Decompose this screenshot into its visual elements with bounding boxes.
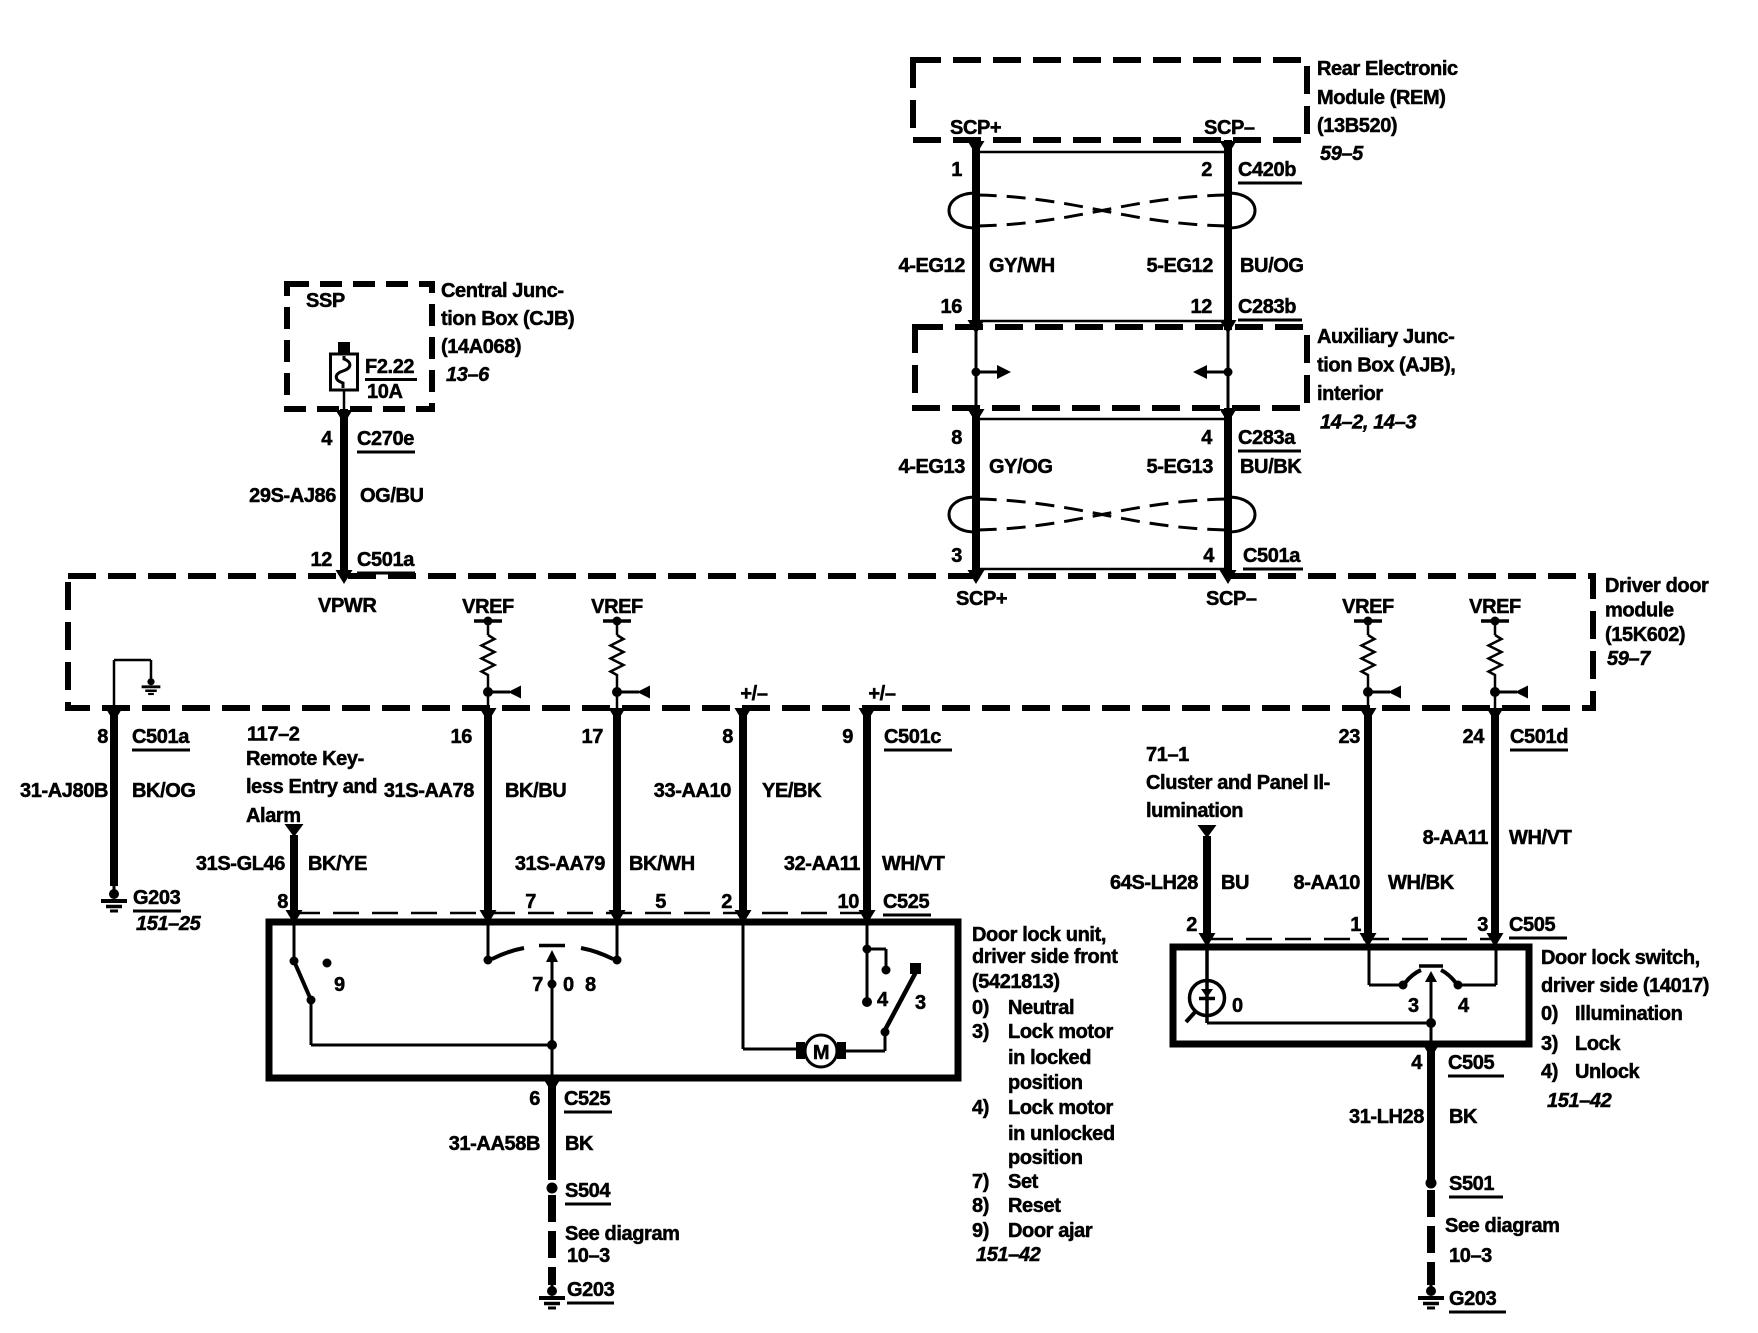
svg-text:(15K602): (15K602) (1605, 624, 1685, 646)
connector C525 (883, 891, 931, 915)
svg-text:Neutral: Neutral (1008, 997, 1074, 1019)
svg-text:7: 7 (525, 891, 536, 913)
svg-text:YE/BK: YE/BK (762, 780, 822, 802)
lock/unlock switch 3/4 (1369, 950, 1496, 1028)
svg-text:6: 6 (529, 1088, 540, 1110)
connector span line C283b (976, 320, 1228, 323)
svg-text:12: 12 (311, 549, 333, 571)
lamp to switch common wire (1207, 1022, 1431, 1025)
svg-text:F2.22: F2.22 (365, 356, 414, 378)
svg-text:C525: C525 (564, 1088, 610, 1110)
svg-text:Reset: Reset (1008, 1195, 1061, 1217)
svg-text:1: 1 (1350, 914, 1361, 936)
svg-text:4-EG12: 4-EG12 (898, 255, 965, 277)
ground label G203 (567, 1279, 615, 1303)
svg-text:59–5: 59–5 (1320, 143, 1364, 165)
svg-text:WH/VT: WH/VT (882, 853, 945, 875)
wire SCP+ inside AJB with direction arrow (972, 327, 1012, 408)
svg-text:position: position (1008, 1072, 1083, 1094)
svg-text:BU/OG: BU/OG (1240, 255, 1304, 277)
svg-text:(14A068): (14A068) (441, 336, 521, 358)
svg-text:33-AA10: 33-AA10 (654, 780, 732, 802)
wire 8-AA11 WH/VT (1487, 708, 1504, 947)
svg-text:32-AA11: 32-AA11 (784, 853, 860, 875)
twisted pair symbol (lower) (949, 497, 1255, 532)
door ajar switch (9) (290, 925, 553, 1045)
svg-text:tion Box (CJB): tion Box (CJB) (441, 308, 574, 330)
splice label S501 (1449, 1173, 1503, 1197)
svg-text:BK/BU: BK/BU (505, 780, 566, 802)
svg-text:29S-AJ86: 29S-AJ86 (249, 485, 336, 507)
svg-text:17: 17 (582, 726, 604, 748)
svg-text:WH/VT: WH/VT (1509, 827, 1572, 849)
Door lock switch box (14017) (1173, 947, 1529, 1044)
svg-text:BK/OG: BK/OG (132, 780, 196, 802)
svg-text:VPWR: VPWR (318, 595, 377, 617)
connector span line C283a (976, 418, 1228, 421)
svg-text:10A: 10A (367, 381, 403, 403)
connector C270e (357, 428, 415, 452)
svg-text:0): 0) (1541, 1003, 1558, 1025)
svg-text:10–3: 10–3 (567, 1245, 610, 1267)
svg-text:8: 8 (951, 427, 962, 449)
off-page wire to G203 (1427, 1190, 1435, 1285)
ground label G203 (133, 887, 181, 911)
connector C501d (1510, 726, 1568, 750)
splice S501 (1426, 1178, 1437, 1189)
svg-text:5-EG13: 5-EG13 (1146, 456, 1213, 478)
wire SCP- 5-EG13 BU/BK (AJB pin4 to DDM pin4) (1220, 408, 1237, 584)
svg-text:C501c: C501c (884, 726, 941, 748)
svg-text:24: 24 (1463, 726, 1486, 748)
CJB label text (441, 280, 574, 386)
svg-text:lumination: lumination (1146, 800, 1243, 822)
svg-text:151–42: 151–42 (976, 1244, 1041, 1266)
svg-text:151–25: 151–25 (136, 913, 202, 935)
fuse value F2.22/10A (365, 356, 417, 403)
svg-text:Lock: Lock (1575, 1033, 1621, 1055)
wire 31S-AA78 BK/BU (480, 708, 497, 924)
connector C505 (1509, 914, 1567, 938)
svg-text:117–2: 117–2 (247, 724, 300, 746)
svg-text:Driver door: Driver door (1605, 575, 1709, 597)
svg-text:Door lock switch,: Door lock switch, (1541, 947, 1700, 969)
svg-text:Central Junc-: Central Junc- (441, 280, 564, 302)
splice S504 (547, 1183, 558, 1194)
lock motor position switch 3/4 (862, 925, 921, 1030)
svg-text:in locked: in locked (1008, 1047, 1091, 1069)
svg-text:See diagram: See diagram (565, 1223, 680, 1245)
svg-text:3: 3 (1408, 995, 1419, 1017)
svg-text:SCP–: SCP– (1206, 588, 1257, 610)
svg-text:3: 3 (1477, 914, 1488, 936)
internal chassis ground of DDM (114, 660, 160, 708)
svg-text:G203: G203 (567, 1279, 615, 1301)
svg-text:10–3: 10–3 (1449, 1245, 1492, 1267)
note see diagram 10-3 (1445, 1215, 1560, 1267)
svg-text:C505: C505 (1509, 914, 1555, 936)
AJB label text (1317, 326, 1455, 434)
contact 9 (323, 959, 332, 968)
svg-text:(13B520): (13B520) (1317, 115, 1397, 137)
wire 31-AA58B BK (pin6 to S504) (544, 1078, 561, 1180)
pin24 VREF pull-up inside driver door module (1469, 596, 1528, 708)
svg-text:SCP–: SCP– (1204, 117, 1255, 139)
svg-text:module: module (1605, 600, 1674, 622)
svg-text:5: 5 (655, 891, 666, 913)
svg-text:Unlock: Unlock (1575, 1061, 1641, 1083)
svg-text:OG/BU: OG/BU (360, 485, 424, 507)
wire SCP- inside AJB with direction arrow (1193, 327, 1233, 408)
svg-text:tion Box (AJB),: tion Box (AJB), (1317, 355, 1455, 377)
svg-text:Set: Set (1008, 1171, 1039, 1193)
svg-text:C501d: C501d (1510, 726, 1568, 748)
svg-text:C420b: C420b (1238, 159, 1296, 181)
svg-text:VREF: VREF (1469, 596, 1521, 618)
svg-text:Door ajar: Door ajar (1008, 1220, 1093, 1242)
connector span line C501a (976, 568, 1228, 571)
svg-text:12: 12 (1191, 296, 1213, 318)
svg-text:151–42: 151–42 (1547, 1090, 1612, 1112)
REM module label text (1317, 58, 1458, 165)
svg-text:+/–: +/– (868, 683, 895, 705)
svg-text:3: 3 (915, 992, 926, 1014)
lock motor M (743, 925, 890, 1067)
svg-text:+/–: +/– (740, 683, 767, 705)
svg-text:C283a: C283a (1238, 427, 1296, 449)
svg-text:8-AA11: 8-AA11 (1423, 827, 1489, 849)
connector C525 (pin6) (564, 1088, 612, 1112)
illumination lamp (0) (1186, 950, 1225, 1023)
svg-text:9): 9) (972, 1220, 989, 1242)
wire SCP- 5-EG12 BU/OG (REM pin2 to AJB pin12) (1220, 140, 1237, 334)
wire 8-AA10 WH/BK (1360, 708, 1377, 947)
connector C501a (right) (1243, 545, 1303, 569)
svg-text:59–7: 59–7 (1607, 648, 1651, 670)
set/reset switch 7-0-8 (484, 925, 622, 1045)
svg-text:0: 0 (1232, 995, 1243, 1017)
svg-text:Rear Electronic: Rear Electronic (1317, 58, 1458, 80)
svg-text:C270e: C270e (357, 428, 414, 450)
svg-text:WH/BK: WH/BK (1388, 872, 1455, 894)
svg-text:31-AJ80B: 31-AJ80B (20, 780, 108, 802)
Door lock unit box (5421813) (269, 922, 958, 1078)
svg-text:in unlocked: in unlocked (1008, 1123, 1115, 1145)
pin23 VREF pull-up inside driver door module (1342, 596, 1401, 708)
svg-text:G203: G203 (133, 887, 181, 909)
svg-text:Alarm: Alarm (246, 805, 301, 827)
svg-text:4): 4) (972, 1097, 989, 1119)
svg-text:2: 2 (1186, 914, 1197, 936)
connector C501a (SSP column) (357, 549, 415, 573)
svg-text:SSP: SSP (306, 290, 345, 312)
connector C525 span line (294, 912, 867, 915)
svg-text:4: 4 (877, 989, 889, 1011)
svg-text:3: 3 (951, 545, 962, 567)
lock switch legend text (1541, 947, 1709, 1112)
svg-text:SCP+: SCP+ (956, 588, 1007, 610)
wire 31S-GL46 BK/YE (286, 835, 303, 924)
svg-text:Door lock unit,: Door lock unit, (972, 924, 1106, 946)
svg-text:8-AA10: 8-AA10 (1293, 872, 1360, 894)
svg-text:C501a: C501a (1243, 545, 1301, 567)
ground label G203 (1449, 1288, 1506, 1312)
wire 32-AA11 WH/VT (859, 708, 876, 924)
svg-text:8: 8 (722, 726, 733, 748)
off-page arrow from 117-2 (285, 824, 304, 837)
Rear Electronic Module (REM) box (913, 60, 1307, 140)
svg-text:BK/YE: BK/YE (308, 853, 367, 875)
svg-text:9: 9 (842, 726, 853, 748)
connector C505 (pin4) (1448, 1052, 1504, 1076)
svg-text:position: position (1008, 1147, 1083, 1169)
svg-text:less Entry and: less Entry and (246, 776, 377, 798)
svg-text:See diagram: See diagram (1445, 1215, 1560, 1237)
svg-text:8: 8 (585, 974, 596, 996)
Auxiliary Junction Box (AJB) box (915, 327, 1307, 408)
svg-text:SCP+: SCP+ (950, 117, 1001, 139)
svg-text:31S-AA79: 31S-AA79 (515, 853, 605, 875)
DDM label text (1605, 575, 1709, 670)
note: Cluster and Panel Illumination 71-1 (1146, 744, 1330, 822)
svg-text:9: 9 (334, 974, 345, 996)
svg-text:8: 8 (97, 726, 108, 748)
connector C501c (884, 726, 952, 750)
svg-text:C283b: C283b (1238, 296, 1296, 318)
connector C283a (1238, 427, 1301, 451)
connector C501a (left) (132, 726, 190, 750)
svg-text:13–6: 13–6 (446, 364, 490, 386)
svg-text:31S-AA78: 31S-AA78 (384, 780, 474, 802)
svg-text:BU: BU (1221, 872, 1249, 894)
svg-text:23: 23 (1339, 726, 1361, 748)
svg-text:Remote Key-: Remote Key- (246, 748, 364, 770)
svg-text:VREF: VREF (591, 596, 643, 618)
twisted pair symbol (upper) (949, 193, 1255, 228)
svg-text:16: 16 (451, 726, 473, 748)
wire 64S-LH28 BU (1199, 836, 1216, 947)
fuse F2.22 10A (331, 342, 358, 409)
svg-text:16: 16 (941, 296, 963, 318)
svg-text:BK: BK (1449, 1106, 1478, 1128)
note see diagram 10-3 (565, 1223, 680, 1267)
connector C505 span line (1207, 938, 1495, 941)
svg-text:4): 4) (1541, 1061, 1558, 1083)
svg-text:GY/WH: GY/WH (989, 255, 1055, 277)
svg-text:31-LH28: 31-LH28 (1349, 1106, 1424, 1128)
svg-text:0: 0 (563, 974, 574, 996)
connector span line C420b (976, 151, 1228, 154)
off-page arrow from 71-1 (1198, 825, 1217, 838)
connector C283b (1238, 296, 1302, 320)
svg-text:3): 3) (972, 1021, 989, 1043)
pin17 VREF pull-up inside driver door module (591, 596, 650, 708)
svg-text:31-AA58B: 31-AA58B (449, 1133, 540, 1155)
svg-text:7): 7) (972, 1171, 989, 1193)
wire to pin 4 inside switch (1430, 1023, 1433, 1043)
svg-text:C501a: C501a (132, 726, 190, 748)
svg-text:Lock motor: Lock motor (1008, 1097, 1114, 1119)
svg-text:GY/OG: GY/OG (989, 456, 1053, 478)
svg-text:8): 8) (972, 1195, 989, 1217)
svg-text:C501a: C501a (357, 549, 415, 571)
wire SCP+ 4-EG12 GY/WH (REM pin1 to AJB pin16) (968, 140, 985, 334)
svg-text:3): 3) (1541, 1033, 1558, 1055)
svg-text:BK: BK (565, 1133, 594, 1155)
wire 31S-AA79 BK/WH (609, 708, 626, 924)
svg-text:driver side front: driver side front (972, 946, 1118, 968)
svg-text:VREF: VREF (1342, 596, 1394, 618)
wire 33-AA10 YE/BK (735, 708, 752, 924)
Central Junction Box (SSP) box (287, 284, 432, 409)
svg-text:71–1: 71–1 (1146, 744, 1189, 766)
wire SCP+ 4-EG13 GY/OG (AJB pin8 to DDM pin3) (968, 408, 985, 584)
svg-text:Lock motor: Lock motor (1008, 1021, 1114, 1043)
svg-text:S501: S501 (1449, 1173, 1494, 1195)
note: Remote Keyless Entry and Alarm 117-2 (246, 724, 377, 828)
svg-text:Auxiliary Junc-: Auxiliary Junc- (1317, 326, 1454, 348)
svg-text:(5421813): (5421813) (972, 971, 1060, 993)
svg-text:7: 7 (532, 974, 543, 996)
ground G203 (left) (101, 886, 127, 911)
svg-text:4: 4 (1458, 995, 1470, 1017)
svg-text:1: 1 (951, 159, 962, 181)
svg-text:S504: S504 (565, 1180, 611, 1202)
svg-text:10: 10 (838, 891, 860, 913)
svg-text:interior: interior (1317, 383, 1383, 405)
svg-text:BK/WH: BK/WH (629, 853, 695, 875)
svg-text:4: 4 (321, 428, 333, 450)
svg-text:5-EG12: 5-EG12 (1146, 255, 1213, 277)
svg-text:2: 2 (1201, 159, 1212, 181)
svg-text:2: 2 (721, 891, 732, 913)
pin16 VREF pull-up inside driver door module (462, 596, 521, 708)
svg-text:31S-GL46: 31S-GL46 (196, 853, 285, 875)
Driver door module (DDM) box (68, 576, 1593, 708)
off-page wire to G203 (548, 1195, 556, 1285)
wire 31-LH28 BK (pin4 to S501) (1423, 1044, 1440, 1180)
svg-text:4: 4 (1203, 545, 1215, 567)
svg-text:C505: C505 (1448, 1052, 1494, 1074)
svg-text:C525: C525 (883, 891, 929, 913)
connector C420b (1238, 159, 1302, 183)
svg-text:driver side (14017): driver side (14017) (1541, 975, 1709, 997)
svg-text:BU/BK: BU/BK (1240, 456, 1302, 478)
svg-text:4: 4 (1411, 1052, 1423, 1074)
wire 31-AJ80B BK/OG to ground (106, 708, 123, 886)
junction node in lock unit (547, 1040, 557, 1050)
svg-text:64S-LH28: 64S-LH28 (1110, 872, 1198, 894)
wire 29S-AJ86 OG/BU (CJB to DDM pin12) (336, 409, 353, 584)
svg-text:14–2, 14–3: 14–2, 14–3 (1320, 412, 1416, 434)
svg-text:0): 0) (972, 997, 989, 1019)
svg-text:M: M (813, 1042, 829, 1064)
wire to pin 6 inside lock unit (551, 1045, 554, 1078)
splice label S504 (565, 1180, 611, 1204)
svg-text:8: 8 (277, 891, 288, 913)
ground G203 (center) (539, 1283, 565, 1308)
svg-text:VREF: VREF (462, 596, 514, 618)
svg-text:G203: G203 (1449, 1288, 1497, 1310)
svg-text:4: 4 (1201, 427, 1213, 449)
ground G203 (right) (1418, 1283, 1444, 1308)
svg-text:4-EG13: 4-EG13 (898, 456, 965, 478)
svg-text:Illumination: Illumination (1575, 1003, 1682, 1025)
svg-text:Cluster and Panel Il-: Cluster and Panel Il- (1146, 772, 1330, 794)
lock unit legend text (972, 924, 1118, 1266)
svg-text:Module (REM): Module (REM) (1317, 87, 1446, 109)
